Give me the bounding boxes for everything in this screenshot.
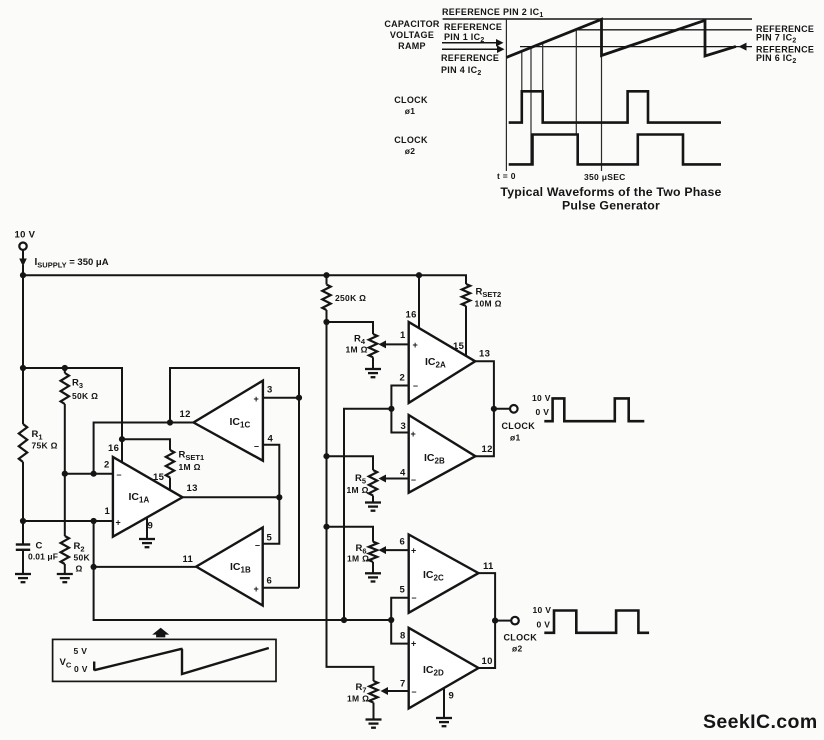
svg-text:R5: R5 [355, 473, 366, 485]
wire: IC1A pin 2 input [65, 473, 113, 475]
junction: pin 3 / loop [296, 395, 302, 401]
svg-text:13: 13 [187, 483, 198, 494]
resistor RSET2 [462, 284, 470, 356]
wire: pin 9 stub [146, 518, 148, 539]
svg-text:7: 7 [400, 679, 406, 690]
wire: IC2B pin 12 output [475, 409, 494, 456]
svg-text:5: 5 [400, 585, 406, 596]
wire: IC2D pin 9 stub [443, 688, 445, 718]
supply terminal 10V [15, 230, 36, 276]
svg-text:ø2: ø2 [405, 146, 416, 156]
wire: top-left horizontal to pin16 column [23, 368, 122, 439]
wire: divider to R2 [64, 474, 66, 536]
ground below R5 [365, 503, 381, 511]
svg-text:11: 11 [483, 561, 494, 572]
wire: pin16 to RSET1 top [122, 439, 170, 450]
label REFERENCE PIN 4 IC2 [441, 53, 499, 77]
resistor R2 [61, 536, 69, 574]
svg-text:+: + [411, 546, 417, 556]
svg-text:2: 2 [104, 460, 110, 471]
svg-text:REFERENCE PIN 2 IC1: REFERENCE PIN 2 IC1 [442, 7, 544, 19]
svg-text:75K Ω: 75K Ω [32, 441, 58, 451]
wire: IC1B pin 5 to pin13 node [263, 497, 280, 543]
svg-text:–: – [413, 381, 418, 391]
wire: IC2C pin 5 to phase-2 line [391, 598, 409, 620]
Vc inset box [53, 639, 276, 681]
wire: mid vertical (250K net down to R7) [327, 322, 374, 681]
label RSET2 10M [475, 287, 502, 309]
label capacitor voltage ramp [384, 19, 440, 51]
svg-text:REFERENCE: REFERENCE [441, 53, 499, 63]
junction: 250K / R4 feed [323, 319, 329, 325]
label REFERENCE PIN 1 IC2 [444, 22, 502, 44]
label CLOCK phi1 [502, 421, 536, 443]
wire: IC1C pin 4 to pin13 node [263, 445, 279, 498]
svg-text:9: 9 [148, 521, 154, 532]
junction: R1-C / pin 1 [20, 518, 26, 524]
svg-text:2: 2 [400, 373, 406, 384]
svg-text:1M Ω: 1M Ω [346, 345, 368, 355]
svg-text:SeekIC.com: SeekIC.com [703, 711, 818, 733]
svg-text:C: C [36, 541, 43, 552]
svg-text:+: + [254, 584, 260, 594]
svg-text:6: 6 [400, 537, 406, 548]
ground IC2D pin 9 [436, 718, 452, 726]
title: Typical Waveforms of the Two Phase Pulse Generator [500, 185, 721, 213]
junction: bus / R1 column [20, 272, 26, 278]
wire: 10V supply bus [23, 275, 466, 284]
svg-text:11: 11 [183, 554, 194, 565]
label 10V / 0V (phase 1) [532, 393, 551, 417]
svg-text:CLOCK: CLOCK [502, 421, 536, 431]
junction: pins 2-3 node [388, 406, 394, 412]
svg-text:RSET1: RSET1 [179, 450, 205, 462]
svg-text:ø1: ø1 [405, 106, 416, 116]
junction: bus / 250K [323, 272, 329, 278]
wire: to phase-1 terminal [494, 408, 510, 410]
svg-text:12: 12 [482, 444, 493, 455]
svg-text:Typical Waveforms of the Two P: Typical Waveforms of the Two Phase [500, 185, 721, 199]
svg-text:16: 16 [108, 443, 119, 454]
op-amp IC2C [409, 535, 479, 613]
wire: IC2C pin 11 output [479, 573, 496, 621]
svg-text:VC: VC [60, 657, 72, 669]
terminal clock phase 1 [510, 405, 518, 413]
svg-text:CLOCK: CLOCK [504, 633, 538, 643]
wiper arrow R6 (IC2C pin 6) [379, 546, 409, 554]
svg-text:+: + [254, 394, 260, 404]
wire: R5 feed [327, 456, 374, 470]
junction: pin13 output node [276, 494, 282, 500]
clock phase-1 waveform (timing) [509, 91, 721, 122]
resistor R1 [19, 424, 27, 462]
junction: on phase-2 line x391 (pins 5-8) [388, 617, 394, 623]
label R2 50K [74, 541, 91, 574]
label R6 1M [347, 543, 369, 564]
wire: pin1 node to capacitor [22, 521, 24, 544]
svg-text:9: 9 [449, 691, 455, 702]
svg-text:–: – [412, 687, 417, 697]
ground below R7 [366, 720, 382, 728]
label R5 1M [347, 473, 369, 495]
label CLOCK phi2 [504, 633, 538, 654]
potentiometer R6 [369, 542, 377, 573]
clock phase-2 waveform (timing) [509, 135, 721, 165]
reference level line pin 7 IC2 [577, 29, 752, 31]
resistor RSET1 [166, 450, 174, 490]
svg-text:PIN 6 IC2: PIN 6 IC2 [756, 53, 797, 65]
svg-text:16: 16 [406, 310, 417, 321]
arrow reference pin 4 IC2 [442, 45, 505, 53]
svg-text:Pulse Generator: Pulse Generator [562, 199, 660, 213]
label R4 1M [346, 334, 368, 355]
wiper arrow R7 (IC2D pin 7) [381, 687, 409, 695]
svg-text:250K Ω: 250K Ω [335, 293, 366, 303]
svg-text:–: – [411, 475, 416, 485]
timing projection lines [506, 19, 601, 171]
svg-text:REFERENCE: REFERENCE [444, 22, 502, 32]
svg-text:6: 6 [267, 576, 273, 587]
svg-text:PIN 7 IC2: PIN 7 IC2 [756, 33, 797, 45]
wiper arrow R4 (IC2A pin 1) [379, 340, 409, 348]
svg-text:+: + [411, 429, 417, 439]
svg-text:10: 10 [482, 656, 493, 667]
op-amp IC1B [196, 528, 263, 606]
label CLOCK phi2 (timing) [394, 135, 428, 156]
ground below R4 [365, 369, 381, 377]
wire: pins 2-3 node down to phase-2 input line [344, 409, 391, 620]
Vc sawtooth waveform [94, 648, 269, 674]
svg-text:10 V: 10 V [533, 605, 552, 615]
svg-text:1: 1 [400, 330, 406, 341]
svg-text:+: + [116, 518, 122, 528]
wire: IC1B pin 11 output [94, 566, 197, 568]
reference level line pin 2 IC1 [443, 18, 752, 20]
potentiometer R4 [369, 334, 377, 369]
arrow reference pin 1 IC2 [442, 39, 504, 47]
clock phase-2 output waveform [544, 611, 649, 633]
svg-text:13: 13 [479, 349, 490, 360]
svg-text:CLOCK: CLOCK [394, 95, 428, 105]
wire: IC1A pin 13 output [183, 496, 280, 498]
pointer arrow to phase-2 line (Vc) [152, 628, 169, 638]
wire: IC1C pin 3 [263, 397, 299, 399]
svg-text:1M Ω: 1M Ω [347, 554, 369, 564]
svg-text:10 V: 10 V [532, 393, 551, 403]
junction: divider / pin 2 [62, 471, 68, 477]
label R1 75K [32, 429, 58, 451]
wire: IC2A pin 13 output [475, 361, 494, 409]
junction: R1 / top-left horizontal [20, 365, 26, 371]
junction: phase-1 output node [491, 406, 497, 412]
svg-text:50K: 50K [74, 553, 91, 563]
svg-text:CAPACITOR: CAPACITOR [384, 19, 440, 29]
svg-text:ø2: ø2 [512, 644, 523, 654]
wire: IC2D pin 8 to phase-2 line [391, 620, 409, 644]
op-amp IC1C [194, 381, 263, 461]
svg-text:–: – [117, 470, 122, 480]
wire: pin 16 stub [121, 439, 123, 462]
clock phase-1 output waveform [544, 398, 644, 421]
label C 0.01uF [28, 541, 58, 562]
wire: pin 1 node down and across to IC2C/IC2D inputs [94, 521, 392, 620]
svg-text:+: + [413, 340, 419, 350]
svg-text:VOLTAGE: VOLTAGE [390, 30, 434, 40]
junction: R3 top [62, 365, 68, 371]
resistor R3 [61, 368, 69, 474]
wire: to phase-2 terminal [495, 620, 511, 622]
junction: on phase-2 line x344 [341, 617, 347, 623]
svg-text:3: 3 [401, 421, 407, 432]
wire: IC1B pin 6 to loop column [263, 587, 299, 589]
op-amp IC1A [113, 457, 183, 537]
junction: feedback / pin 2 [91, 471, 97, 477]
ground below R6 [365, 573, 381, 581]
ground below C [15, 574, 31, 582]
label R7 1M [347, 682, 369, 704]
wire: feedback loop over IC1C (pin12 to pin3/pin6 column) [170, 368, 299, 588]
svg-text:15: 15 [153, 472, 165, 483]
svg-text:–: – [255, 540, 260, 550]
wire: IC2A pin2 / IC2B pin3 link [391, 386, 408, 433]
op-amp IC2A [409, 322, 476, 403]
junction: pin 12 / feedback loop [167, 419, 173, 425]
svg-text:RSET2: RSET2 [476, 287, 502, 299]
svg-text:10 V: 10 V [15, 230, 36, 241]
label REFERENCE PIN 7 IC2 [756, 24, 814, 45]
potentiometer R5 [369, 470, 377, 502]
svg-text:350 μSEC: 350 μSEC [584, 172, 626, 182]
wire: left column R1 upper [22, 275, 24, 424]
svg-text:1: 1 [105, 506, 111, 517]
op-amp IC2D [409, 628, 479, 709]
wire: R6 feed [327, 527, 374, 542]
svg-text:–: – [254, 441, 259, 451]
svg-text:4: 4 [400, 468, 406, 479]
svg-text:10M Ω: 10M Ω [475, 299, 502, 309]
ground IC1A pin 9 [139, 539, 155, 547]
svg-text:1M Ω: 1M Ω [179, 462, 201, 472]
resistor 250K [322, 275, 330, 322]
junction: R6 feed [323, 524, 329, 530]
svg-text:5 V: 5 V [74, 646, 88, 656]
svg-text:–: – [412, 593, 417, 603]
svg-text:PIN 4 IC2: PIN 4 IC2 [441, 65, 482, 77]
label 5V / 0V (Vc) [74, 646, 88, 674]
svg-text:Ω: Ω [76, 564, 83, 574]
wire: IC2A pin 16 stub from bus [418, 275, 420, 328]
wire: R4 feed [327, 322, 374, 334]
svg-text:0 V: 0 V [537, 620, 551, 630]
terminal clock phase 2 [511, 617, 519, 625]
svg-text:1M Ω: 1M Ω [347, 694, 369, 704]
junction: phase-2 output node [492, 618, 498, 624]
reference level line pin 6 IC2 with left arrow [520, 43, 752, 51]
svg-text:3: 3 [267, 385, 273, 396]
svg-text:50K Ω: 50K Ω [72, 391, 98, 401]
svg-text:t = 0: t = 0 [497, 171, 516, 181]
junction: pin 1 / down branch [91, 518, 97, 524]
capacitor C 0.01uF [16, 545, 30, 574]
label R3 50K [72, 378, 98, 402]
svg-text:0.01 μF: 0.01 μF [28, 552, 58, 562]
op-amp IC2B [409, 415, 476, 493]
wiper arrow R5 (IC2B pin 4) [379, 475, 409, 483]
junction: pin 16 / RSET1 [119, 436, 125, 442]
svg-text:8: 8 [400, 631, 406, 642]
label RSET1 1M [179, 450, 205, 473]
wire: IC1A pin 1 input [23, 520, 113, 522]
wire: IC1C pin 12 output to pin 2 node [94, 423, 194, 474]
wire: R1 to pin1 node [22, 462, 24, 521]
label CLOCK phi1 (timing) [394, 95, 428, 116]
potentiometer R7 [369, 681, 377, 719]
label 10V / 0V (phase 2) [533, 605, 552, 630]
svg-text:ISUPPLY = 350 μA: ISUPPLY = 350 μA [35, 257, 109, 269]
svg-text:12: 12 [180, 409, 191, 420]
svg-text:5: 5 [267, 533, 273, 544]
label REFERENCE PIN 6 IC2 [756, 45, 814, 66]
svg-text:CLOCK: CLOCK [394, 135, 428, 145]
svg-text:ø1: ø1 [510, 433, 521, 443]
svg-text:0 V: 0 V [74, 664, 88, 674]
junction: IC1B pin 11 branch [91, 564, 97, 570]
svg-text:R3: R3 [72, 378, 83, 390]
svg-text:1M Ω: 1M Ω [347, 485, 369, 495]
ground below R2 [57, 574, 73, 582]
svg-text:4: 4 [268, 434, 274, 445]
svg-text:15: 15 [453, 341, 465, 352]
junction: bus / IC2A pin 16 [416, 272, 422, 278]
junction: R5 feed [323, 453, 329, 459]
wire: IC2D pin 10 output [479, 621, 496, 668]
svg-text:+: + [411, 639, 417, 649]
svg-text:RAMP: RAMP [398, 41, 426, 51]
capacitor ramp waveform [506, 19, 736, 57]
svg-text:0 V: 0 V [536, 407, 550, 417]
